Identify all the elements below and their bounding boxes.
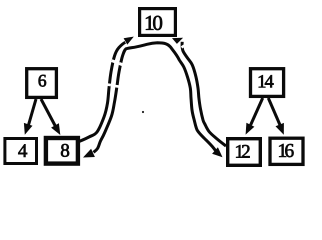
curved arrow 12 to 10 (head at 10 bottom-right) <box>172 38 226 146</box>
label 16 <box>279 144 293 157</box>
node box 8 <box>46 138 78 164</box>
stray dot <box>142 111 144 113</box>
node box 6 <box>27 69 57 98</box>
label 14 <box>259 75 274 87</box>
label 10 <box>146 16 162 30</box>
scan nick gaps on curves <box>107 44 185 87</box>
label 6 <box>39 75 47 87</box>
curved arrow 8 to 10 (head at 10 bottom-left) <box>78 37 134 142</box>
node box 16 <box>270 138 303 164</box>
node box 4 <box>5 139 37 164</box>
node box 14 <box>251 69 284 97</box>
edge 6 to 4 <box>24 99 36 135</box>
label 8 <box>61 144 69 157</box>
edge 6 to 8 <box>41 99 60 135</box>
edge 14 to 12 <box>246 98 263 135</box>
node box 10 <box>140 9 176 36</box>
node box 12 <box>228 139 261 166</box>
edge 14 to 16 <box>268 98 284 135</box>
curved arrow 10 to 8 / 10 to 12 (dome, heads at 8 and 12) <box>83 43 223 158</box>
label 4 <box>18 144 27 157</box>
label 12 <box>236 145 249 158</box>
